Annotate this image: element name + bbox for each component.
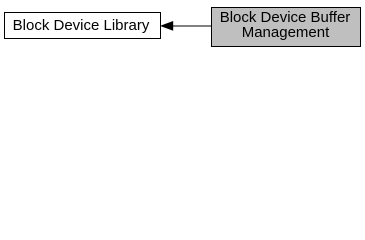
svg-text:Block Device Library: Block Device Library bbox=[13, 17, 150, 34]
wire: edge from Block Device Buffer Management to Block Device Library bbox=[160, 21, 211, 31]
node: Block Device Library bbox=[5, 13, 161, 39]
svg-text:Management: Management bbox=[242, 24, 330, 41]
node: Block Device Buffer Management bbox=[212, 8, 361, 47]
